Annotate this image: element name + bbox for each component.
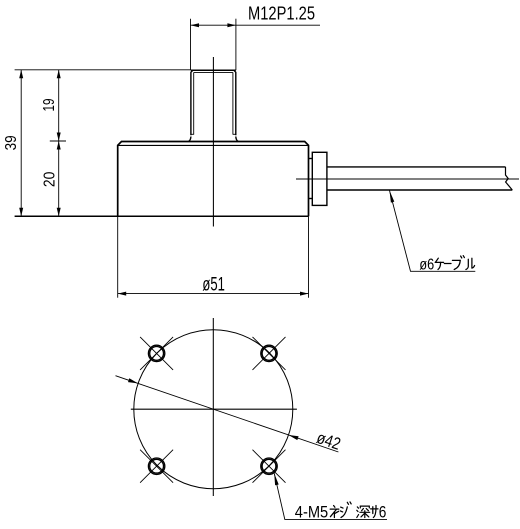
- stud thread root lines: [191, 72, 236, 134]
- kana NE of hole label: [330, 506, 339, 518]
- kana RU of cable label: [466, 258, 475, 269]
- dimension line 39: [20, 70, 22, 216]
- kana long vowel bar of cable label: [444, 263, 451, 265]
- bottom view vertical centerline: [212, 318, 214, 496]
- extension tick at body top level: [50, 140, 66, 142]
- M5 tapped hole bottom-left: [140, 450, 173, 483]
- body outline: [118, 142, 309, 217]
- cable leader arrow: [390, 191, 395, 203]
- svg-text:20: 20: [41, 172, 58, 188]
- kana SA of hole label: [371, 506, 378, 518]
- cable break symbol: [506, 167, 513, 190]
- svg-text:ø6: ø6: [419, 257, 434, 274]
- svg-text:ø51: ø51: [202, 274, 225, 295]
- dia42 arrows: [128, 378, 299, 440]
- M12 dimension extension lines: [191, 19, 236, 70]
- kana KE of cable label: [435, 258, 443, 269]
- stud vertical centerline: [212, 57, 214, 227]
- hole leader arrow: [274, 473, 279, 485]
- svg-text:4-M5: 4-M5: [295, 504, 328, 522]
- body chamfer base edge line: [118, 144, 309, 146]
- M5 tapped hole bottom-right: [253, 450, 286, 483]
- dimension line 19/20: [58, 70, 60, 216]
- svg-text:M12P1.25: M12P1.25: [248, 3, 315, 24]
- cable gland flange: [312, 152, 327, 205]
- bottom view horizontal centerline: [131, 408, 297, 410]
- svg-text:6: 6: [379, 504, 387, 522]
- extension line at stud top level: [15, 69, 191, 71]
- arrows dim 20: [57, 141, 61, 216]
- cable bottom line: [327, 189, 512, 191]
- cable horizontal centerline: [296, 178, 519, 180]
- dia51 extension lines: [118, 216, 309, 298]
- M12 dimension line: [191, 24, 321, 26]
- svg-text:ø42: ø42: [314, 428, 343, 454]
- threaded stud M12 outline: [188, 70, 238, 141]
- arrows dim 39: [19, 70, 23, 216]
- dia51 dimension line: [118, 293, 309, 295]
- M12 dimension arrows: [191, 23, 236, 27]
- body bottom edge with extension line: [15, 215, 309, 217]
- svg-text:19: 19: [41, 98, 58, 111]
- M5 tapped hole top-left: [140, 337, 173, 370]
- kana JI of hole label: [340, 502, 351, 518]
- svg-text:39: 39: [3, 135, 20, 150]
- kana BU of cable label: [452, 256, 464, 270]
- cable gland neck: [309, 159, 313, 199]
- cable top line: [327, 166, 506, 168]
- cable leader line: [390, 191, 476, 272]
- dia42 dimension line diagonal: [116, 376, 339, 452]
- bolt circle: [134, 330, 293, 489]
- arrows dim 19: [57, 70, 61, 141]
- dia51 arrows: [118, 292, 309, 296]
- hole leader line with underline: [274, 473, 387, 519]
- kanji FUKA (depth) of hole label: [357, 506, 370, 517]
- M5 tapped hole top-right: [253, 337, 286, 370]
